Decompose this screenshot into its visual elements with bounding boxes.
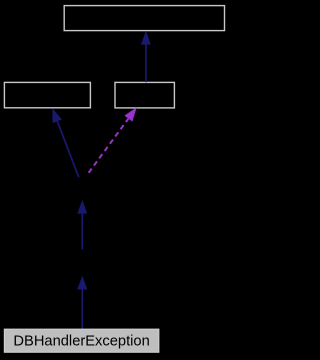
- class node box: top base class (label transparent): [64, 6, 224, 31]
- inheritance arrow: DBHandlerException to hidden lower node (solid vertical): [77, 276, 87, 329]
- class node box: second-row right base class (label transparent): [115, 82, 174, 108]
- inheritance arrow: hidden lower node to hidden middle node (solid vertical): [77, 200, 87, 249]
- class node box: DBHandlerException (current class, grey filled): [4, 329, 158, 352]
- inheritance arrow: right box to top box (solid midnightblue): [141, 31, 151, 82]
- svg-text:DBHandlerException: DBHandlerException: [13, 334, 149, 350]
- template/virtual inheritance arrow: hidden middle node to right box (dashed darkorchid): [89, 107, 137, 173]
- inheritance arrow: hidden middle node to left box (solid midnightblue, slanted): [52, 108, 79, 177]
- class node box: second-row left base class (label transparent): [4, 82, 90, 107]
